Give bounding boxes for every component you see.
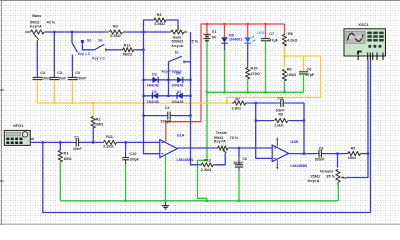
- svg-text:2.2kΩ: 2.2kΩ: [110, 34, 120, 38]
- wire R7 to C11: [248, 102, 278, 104]
- wire R9 to ground bus: [283, 81, 285, 93]
- wire scope channel A: [346, 60, 368, 178]
- wire U1A ground pin: [165, 155, 167, 201]
- wire LED1 to R10: [247, 44, 249, 68]
- switch S2: [72, 43, 78, 53]
- wire orange to C8: [303, 56, 305, 71]
- svg-text:1MΩ: 1MΩ: [63, 157, 71, 161]
- svg-text:75 %: 75 %: [230, 136, 239, 140]
- svg-text:S3: S3: [98, 39, 102, 43]
- capacitor C2: [144, 115, 166, 117]
- svg-text:18kΩ: 18kΩ: [348, 156, 357, 160]
- wire bridge top row: [144, 79, 191, 81]
- ground bus main: [60, 200, 338, 202]
- resistor R6: [284, 24, 286, 35]
- resistor R12: [121, 49, 123, 51]
- wire battery negative down to R13 area: [198, 92, 208, 201]
- potentiometer Volume: [337, 154, 339, 168]
- resistor R8: [256, 120, 272, 122]
- svg-text:C2: C2: [165, 106, 170, 110]
- wire R8 to output riser: [291, 120, 305, 122]
- resistor R7: [232, 102, 234, 104]
- svg-text:4.2kΩ: 4.2kΩ: [287, 38, 297, 42]
- ground: [165, 201, 167, 206]
- svg-text:Key=A: Key=A: [30, 25, 42, 29]
- svg-text:D8: D8: [176, 72, 180, 76]
- svg-text:R10: R10: [251, 66, 258, 70]
- potentiometer Bass: [25, 31, 30, 33]
- wire left rail (feedback): [144, 32, 160, 154]
- wire battery negative: [206, 41, 208, 93]
- svg-text:470Ω: 470Ω: [251, 72, 260, 76]
- U1B negative supply arrow: [276, 160, 278, 169]
- wire +9V rail: [201, 24, 285, 122]
- wire C11 to output riser: [286, 102, 304, 104]
- svg-text:XSC1: XSC1: [358, 22, 369, 27]
- wire XFG1 output to R11: [30, 141, 74, 143]
- wire R1 to ground bus: [59, 162, 61, 201]
- wire right rail: [191, 32, 199, 165]
- svg-text:20nF: 20nF: [73, 147, 83, 151]
- resistor R4: [152, 19, 154, 21]
- resistor R2: [91, 117, 95, 129]
- svg-text:1N4001: 1N4001: [229, 37, 242, 41]
- capacitor C4: [36, 72, 38, 77]
- svg-text:C0: C0: [75, 71, 80, 75]
- svg-text:C7: C7: [269, 32, 274, 36]
- svg-text:560Ω: 560Ω: [123, 53, 132, 57]
- svg-text:R2: R2: [96, 118, 101, 122]
- wire R3 to junction: [127, 31, 168, 33]
- wire output row to U1B: [230, 147, 273, 149]
- wire R2 to input node: [92, 127, 94, 142]
- diode D8: [177, 77, 183, 83]
- svg-text:C11: C11: [278, 96, 284, 100]
- capacitor C6: [238, 148, 240, 157]
- svg-text:D1: D1: [177, 90, 181, 94]
- svg-text:2.2kΩ: 2.2kΩ: [103, 144, 113, 148]
- resistor R13: [213, 164, 215, 166]
- wire C8 to ground bus: [303, 74, 305, 92]
- wire U1B output: [289, 153, 317, 155]
- svg-text:25kΩ: 25kΩ: [311, 174, 320, 178]
- U1B positive supply arrow: [276, 138, 278, 147]
- Bass wiper: [34, 35, 38, 40]
- wire bridge middle rail: [168, 62, 170, 96]
- svg-text:LM1458N: LM1458N: [291, 164, 308, 168]
- svg-text:R1: R1: [64, 151, 69, 155]
- capacitor C10: [125, 142, 127, 151]
- wire R6 to feedback bus (orange): [283, 46, 285, 68]
- wire D5 cathode: [224, 44, 226, 50]
- svg-text:R13: R13: [204, 158, 211, 162]
- svg-text:R8: R8: [278, 112, 282, 116]
- svg-text:1N4148: 1N4148: [147, 84, 159, 88]
- svg-text:1N4148: 1N4148: [147, 100, 159, 104]
- wire R4 to Gain wiper: [168, 20, 178, 27]
- svg-text:1N4148: 1N4148: [172, 100, 184, 104]
- svg-text:C9: C9: [319, 146, 323, 150]
- svg-text:10kΩ: 10kΩ: [287, 73, 296, 77]
- wire C9 to R5: [324, 153, 346, 155]
- svg-text:Key=A: Key=A: [214, 140, 226, 144]
- op-amp U1A: [160, 140, 178, 158]
- wire C10 to ground bus: [125, 165, 127, 201]
- LED1: [247, 24, 249, 37]
- diode D1: [177, 93, 183, 99]
- wire U1A output row: [177, 147, 215, 149]
- svg-text:Key = C: Key = C: [78, 52, 91, 56]
- wire output riser: [303, 103, 305, 154]
- svg-text:10nF: 10nF: [58, 76, 66, 80]
- wire R10 to ground bus: [247, 79, 249, 92]
- svg-text:2.2kΩ: 2.2kΩ: [201, 168, 211, 172]
- capacitor C7: [265, 24, 267, 38]
- svg-text:R5: R5: [351, 146, 355, 150]
- svg-text:Volume: Volume: [320, 169, 333, 173]
- wire C7 to ground bus: [265, 41, 267, 93]
- Gain wiper arrow: [177, 26, 179, 30]
- wire bridge bottom row: [144, 95, 191, 97]
- switch S1: [169, 56, 182, 62]
- svg-text:100µF: 100µF: [129, 158, 139, 162]
- wire orange to R2: [92, 103, 94, 117]
- capacitor C11: [278, 102, 281, 104]
- wire top node to S2: [71, 32, 73, 43]
- resistor R3: [105, 31, 109, 33]
- wire R12 to left rail: [136, 49, 144, 51]
- switch S3: [94, 44, 104, 50]
- wire R4 riser: [144, 20, 153, 32]
- svg-text:47µF: 47µF: [306, 73, 315, 77]
- svg-text:C3: C3: [57, 71, 62, 75]
- resistor R1: [59, 142, 61, 150]
- svg-text:D3: D3: [152, 72, 156, 76]
- wire C1 to R2 node: [81, 141, 101, 143]
- svg-text:U1B: U1B: [291, 140, 299, 144]
- node S2-S3 junction dot: [81, 40, 84, 43]
- wire C6 to ground bus: [238, 171, 240, 200]
- capacitor C0: [71, 72, 73, 77]
- orange feedback bus: [37, 102, 232, 104]
- diode D2: [153, 93, 159, 99]
- svg-text:U1A: U1A: [177, 133, 185, 137]
- wire S2 to C0: [71, 55, 73, 72]
- wire R5 to scope A: [363, 153, 368, 155]
- svg-text:LM1458N: LM1458N: [177, 158, 194, 162]
- sheet border: [0, 0, 400, 2]
- capacitor C9: [317, 153, 319, 155]
- wire +9V to U1A pin8: [166, 122, 201, 142]
- svg-text:R12: R12: [124, 43, 131, 47]
- svg-text:S2: S2: [87, 39, 91, 43]
- wire top node to C3: [53, 32, 55, 72]
- wire S3 to R12: [106, 49, 121, 51]
- svg-text:1MΩ: 1MΩ: [95, 123, 103, 127]
- svg-text:R7: R7: [236, 97, 240, 101]
- battery V1: [206, 24, 208, 34]
- svg-text:2.2kΩ: 2.2kΩ: [274, 123, 284, 127]
- wire C4 to orange bus: [36, 80, 38, 103]
- wire S3 feed: [82, 43, 94, 50]
- wire XFG1 to scope B (bottom bus): [43, 60, 371, 213]
- svg-text:XFG1: XFG1: [13, 123, 24, 128]
- svg-text:3.3kΩ: 3.3kΩ: [154, 22, 164, 26]
- wire C3 to orange bus: [53, 80, 55, 103]
- svg-text:Key = C: Key = C: [92, 56, 105, 60]
- svg-text:220nF: 220nF: [77, 76, 87, 80]
- svg-text:9V: 9V: [212, 36, 217, 40]
- svg-text:C1: C1: [74, 136, 79, 140]
- svg-text:Treble: Treble: [216, 131, 227, 135]
- svg-text:R6: R6: [288, 32, 293, 36]
- svg-text:Key=A: Key=A: [172, 44, 184, 48]
- wire main top node: [44, 31, 104, 33]
- resistor R10: [246, 68, 250, 80]
- wire R11 to U1A: [119, 141, 160, 143]
- Treble wiper: [223, 149, 227, 152]
- svg-text:47µF: 47µF: [269, 38, 278, 42]
- potentiometer Gain: [168, 31, 171, 33]
- wire Volume bottom to ground bus: [337, 182, 339, 185]
- resistor R11: [101, 141, 103, 143]
- wire C0 to orange bus: [71, 80, 73, 103]
- wire Treble wiper to R13: [215, 154, 225, 165]
- svg-text:Key=A: Key=A: [308, 179, 320, 183]
- potentiometer Treble: [216, 147, 218, 149]
- svg-text:560pF: 560pF: [233, 161, 243, 165]
- wire orange loop top: [227, 56, 321, 103]
- svg-text:R3: R3: [113, 25, 118, 29]
- op-amp U1B: [272, 145, 288, 162]
- svg-text:R9: R9: [287, 67, 292, 71]
- svg-text:35 %: 35 %: [326, 174, 335, 178]
- diode D3: [152, 77, 158, 83]
- capacitor C1: [74, 141, 76, 143]
- svg-text:Bass: Bass: [32, 14, 41, 18]
- Volume wiper: [341, 177, 346, 178]
- diode D5: [224, 24, 226, 37]
- wire feedback left riser: [256, 103, 273, 158]
- capacitor C3: [53, 72, 55, 77]
- svg-text:100pF: 100pF: [160, 120, 172, 124]
- svg-text:820nF: 820nF: [315, 158, 325, 162]
- scope terminal stubs: [357, 56, 359, 60]
- svg-text:40 %: 40 %: [47, 20, 56, 24]
- wire Bass wiper to C4: [36, 42, 38, 72]
- capacitor C8: [299, 71, 308, 73]
- svg-text:C10: C10: [130, 152, 137, 156]
- svg-text:S1: S1: [175, 50, 179, 54]
- svg-text:3.3kΩ: 3.3kΩ: [232, 106, 242, 110]
- ground bus upper (battery negative net): [207, 91, 304, 93]
- resistor R5: [346, 153, 348, 155]
- svg-text:V1: V1: [212, 30, 217, 34]
- svg-text:C8: C8: [307, 67, 312, 71]
- svg-text:R11: R11: [106, 135, 113, 139]
- svg-text:D2: D2: [152, 90, 156, 94]
- svg-text:1N4148: 1N4148: [172, 84, 184, 88]
- resistor R9: [282, 69, 286, 81]
